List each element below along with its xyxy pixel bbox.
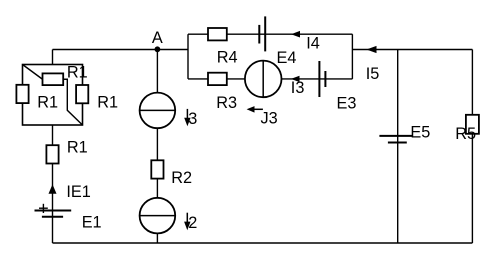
svg-text:E3: E3	[337, 94, 357, 112]
svg-text:R1: R1	[97, 94, 118, 112]
svg-text:I3: I3	[291, 79, 305, 97]
svg-text:R4: R4	[217, 48, 238, 66]
svg-text:2: 2	[188, 214, 197, 232]
svg-text:I5: I5	[366, 65, 380, 83]
svg-text:R1: R1	[67, 64, 88, 82]
svg-text:E5: E5	[410, 124, 430, 142]
svg-text:E4: E4	[277, 49, 297, 67]
svg-text:I4: I4	[306, 35, 320, 53]
svg-text:R1: R1	[67, 139, 88, 157]
svg-text:R5: R5	[455, 125, 476, 143]
svg-text:A: A	[152, 29, 163, 47]
svg-text:J3: J3	[261, 109, 278, 127]
svg-text:E1: E1	[82, 214, 102, 232]
svg-text:R3: R3	[216, 94, 237, 112]
svg-text:3: 3	[188, 110, 197, 128]
svg-text:IE1: IE1	[66, 183, 90, 201]
svg-text:R1: R1	[37, 94, 58, 112]
svg-text:R2: R2	[171, 169, 192, 187]
